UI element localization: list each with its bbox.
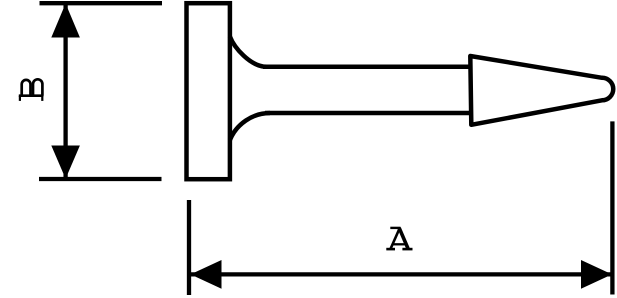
arrowhead B top: [51, 4, 80, 38]
arrowhead B bottom: [51, 146, 80, 179]
pin neck bottom fillet: [230, 113, 270, 140]
label B (rotated Courier-style glyph drawn as strokes): [19, 79, 44, 101]
pin shaft bottom line: [265, 111, 470, 116]
arrowhead A right: [581, 260, 612, 289]
extension line (overall length right): [610, 121, 614, 294]
extension line (head bottom): [39, 177, 162, 181]
pin tip cone: [470, 56, 613, 125]
pin head: [187, 3, 230, 179]
extension line (overall length left): [187, 200, 191, 295]
label A (Courier-style glyph drawn as strokes): [386, 228, 412, 249]
dimension line B: [63, 3, 67, 179]
dimension line A: [191, 272, 613, 276]
arrowhead A left: [191, 260, 222, 289]
pin shaft top line: [263, 65, 470, 70]
extension line (head top): [40, 1, 163, 5]
pin neck top fillet: [230, 37, 267, 67]
